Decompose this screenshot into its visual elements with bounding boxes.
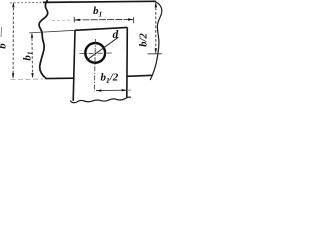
svg-text:d: d (113, 29, 119, 41)
b1/2 right arrow (122, 89, 127, 91)
bar 1 (horizontal flat bar, behind) top edge (10, 1, 44, 4)
dimension b (left outer), line (12, 3, 14, 78)
dimension b1/2 (bottom), line (96, 89, 127, 91)
dimension b arrow down (12, 73, 14, 78)
b/2 arrow up (155, 2, 157, 7)
dimension b arrow up (12, 2, 14, 7)
svg-text:b/2: b/2 (139, 33, 150, 47)
bar 1 right break line (curved) (150, 1, 162, 80)
bar 1 bottom edge (left segment, ends at front bar) (46, 77, 75, 79)
bottom extension line (faint) (11, 78, 44, 81)
dimension b1 (top) line (74, 18, 133, 21)
dimension b1 (top), faint left lead (52, 19, 72, 22)
right tick (133, 17, 135, 23)
svg-text:b1/2: b1/2 (101, 72, 119, 86)
overshoot right (127, 89, 131, 91)
hole centre line horizontal, far right extension at b/2 dimension (148, 53, 162, 55)
scan artifact at left edge (0, 27, 3, 37)
hole centre line horizontal (80, 52, 113, 55)
b1/2 left arrow (96, 89, 101, 91)
right arrow (128, 18, 133, 20)
left arrow (75, 19, 80, 21)
b/2 arrow down (155, 48, 157, 53)
hole (drilled) circle (85, 43, 105, 63)
bar 1 bottom edge (right segment) (127, 75, 153, 76)
bar 2 bottom break line (freehand wavy) (70, 97, 131, 103)
bar 2 (vertical flat bar, front) top end edge (75, 27, 127, 30)
svg-text:b: b (0, 43, 9, 49)
dimension b1 arrow down (31, 73, 33, 78)
dimension b/2 (right), line (155, 3, 157, 53)
left tick (73, 17, 75, 23)
dimension b1 (left inner), extension line from bar2 corner (29, 30, 75, 33)
bar 1 left break line (freehand wavy) (39, 0, 48, 78)
svg-text:b1: b1 (22, 51, 35, 60)
hole centre line vertical (extends down to b1/2 dimension) (94, 39, 95, 92)
dimension b1 arrow up (31, 33, 33, 38)
dimension b1 line (31, 34, 34, 78)
bar 2 left edge (73, 30, 75, 101)
bar 2 right edge (126, 27, 129, 97)
svg-text:b1: b1 (93, 5, 102, 18)
leader line for d (through hole centre) (87, 37, 118, 60)
